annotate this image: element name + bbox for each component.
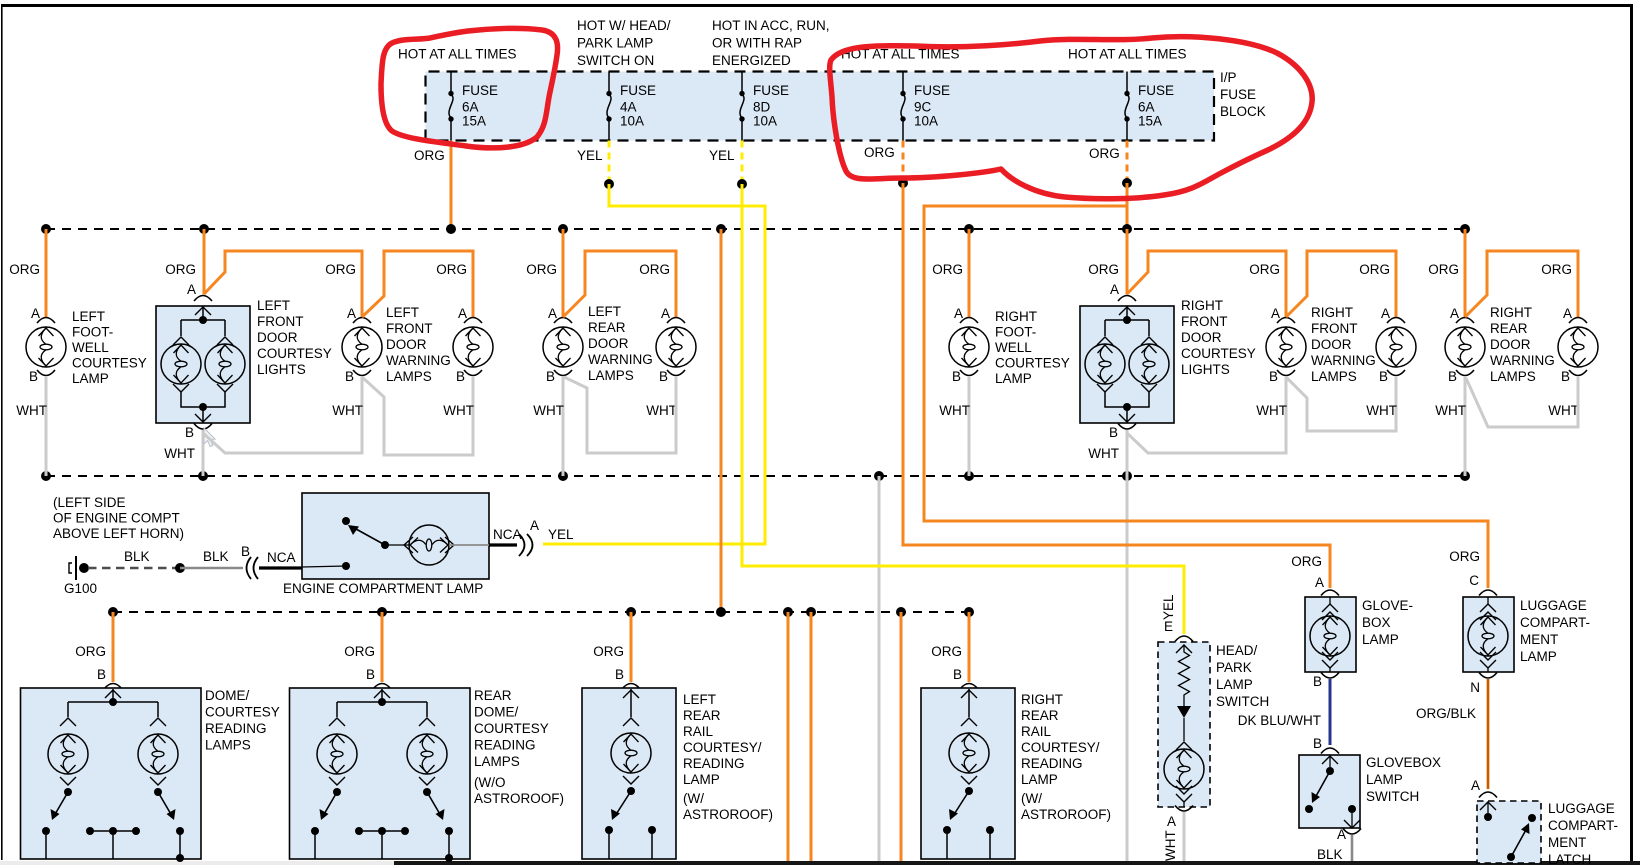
lamp: right rear door warning lamp 1: [1428, 229, 1555, 476]
svg-text:FUSE: FUSE: [1220, 87, 1256, 102]
svg-text:YEL: YEL: [548, 527, 574, 542]
lamp: right rear door warning lamp 2: [1541, 262, 1598, 418]
lamp: right front door warning lamp 1: [1249, 262, 1376, 384]
svg-text:FUSE: FUSE: [753, 83, 789, 98]
svg-text:I/P: I/P: [1220, 70, 1237, 85]
svg-text:ORG: ORG: [932, 262, 963, 277]
svg-text:BLK: BLK: [1317, 847, 1343, 862]
lamp: right foot-well courtesy lamp: [932, 229, 1070, 476]
wire ORG drop from lower bus to bottom: [900, 612, 903, 861]
svg-text:10A: 10A: [753, 114, 777, 129]
svg-text:DOOR: DOOR: [1490, 337, 1531, 352]
svg-text:REAR: REAR: [683, 708, 721, 723]
svg-text:LAMPS: LAMPS: [1311, 369, 1357, 384]
svg-text:WARNING: WARNING: [386, 353, 451, 368]
svg-text:N: N: [1470, 680, 1480, 695]
svg-text:COURTESY: COURTESY: [1181, 346, 1256, 361]
svg-text:LAMP: LAMP: [72, 371, 109, 386]
svg-text:YEL: YEL: [709, 148, 735, 163]
ground G100: [64, 556, 97, 596]
svg-text:HOT W/ HEAD/: HOT W/ HEAD/: [577, 18, 671, 33]
fuse F4 9C 10A: [900, 72, 950, 141]
svg-text:DOOR: DOOR: [1181, 330, 1222, 345]
svg-text:ORG: ORG: [325, 262, 356, 277]
svg-text:A: A: [1471, 778, 1480, 793]
svg-text:WHT: WHT: [1548, 403, 1579, 418]
lamp: left rear door warning lamp 2: [639, 262, 696, 418]
svg-text:B: B: [546, 369, 555, 384]
svg-text:RIGHT: RIGHT: [995, 309, 1037, 324]
wire WHT right rear lamp 2 B to lamp 1 B: [1466, 377, 1578, 427]
svg-text:A: A: [1563, 306, 1572, 321]
svg-text:WHT: WHT: [939, 403, 970, 418]
head/park lamp switch: [1158, 594, 1269, 829]
lamp assembly: rear dome/courtesy reading lamps: [290, 612, 565, 862]
svg-text:A: A: [1167, 814, 1176, 829]
svg-text:A: A: [548, 306, 557, 321]
svg-text:ORG/BLK: ORG/BLK: [1416, 706, 1476, 721]
svg-text:BLK: BLK: [124, 549, 150, 564]
wire engine lamp to connector A: [489, 543, 517, 546]
svg-text:REAR: REAR: [588, 320, 626, 335]
wire WHT right courtesy box B to right warning lamp 1 B: [1127, 377, 1286, 453]
svg-text:LAMP: LAMP: [1216, 677, 1253, 692]
svg-text:LAMPS: LAMPS: [205, 738, 251, 753]
svg-text:6A: 6A: [1138, 100, 1155, 115]
svg-text:(W/O: (W/O: [474, 775, 506, 790]
wire BLK connector to engine lamp box: [259, 566, 303, 569]
mouse cursor artifact: [204, 428, 215, 447]
svg-text:GLOVEBOX: GLOVEBOX: [1366, 755, 1441, 770]
wire ORG right warning lamp 1 to lamp 2: [1286, 251, 1396, 317]
svg-text:B: B: [1448, 369, 1457, 384]
svg-text:COURTESY: COURTESY: [995, 356, 1070, 371]
svg-text:B: B: [185, 425, 194, 440]
svg-text:B: B: [1269, 369, 1278, 384]
svg-text:LIGHTS: LIGHTS: [257, 362, 306, 377]
junction dots on lower bus: [108, 607, 974, 617]
svg-text:15A: 15A: [462, 114, 486, 129]
hand-drawn red loop around fuses 9C and 6A: [830, 37, 1312, 199]
svg-text:COURTESY/: COURTESY/: [683, 740, 762, 755]
svg-text:NCA: NCA: [267, 550, 296, 565]
svg-text:LEFT: LEFT: [257, 298, 290, 313]
svg-text:FOOT-: FOOT-: [995, 325, 1036, 340]
svg-text:WARNING: WARNING: [1311, 353, 1376, 368]
svg-text:YEL: YEL: [1161, 594, 1176, 620]
svg-text:SWITCH ON: SWITCH ON: [577, 53, 654, 68]
svg-text:LAMP: LAMP: [995, 371, 1032, 386]
inline connector B NCA: [241, 544, 296, 579]
svg-text:WHT: WHT: [533, 403, 564, 418]
svg-text:FUSE: FUSE: [1138, 83, 1174, 98]
svg-text:ORG: ORG: [931, 644, 962, 659]
svg-text:LAMP: LAMP: [1520, 649, 1557, 664]
svg-text:GLOVE-: GLOVE-: [1362, 598, 1413, 613]
svg-text:B: B: [952, 369, 961, 384]
svg-text:A: A: [661, 306, 670, 321]
fuse F2 4A 10A: [606, 72, 656, 141]
svg-text:B: B: [1109, 425, 1118, 440]
svg-text:FRONT: FRONT: [1181, 314, 1228, 329]
wire ORG rear lamp 1 to rear lamp 2: [563, 251, 676, 317]
svg-text:B: B: [659, 369, 668, 384]
wire YEL from fuse F3 (dashed): [709, 141, 742, 185]
svg-text:BOX: BOX: [1362, 615, 1391, 630]
lamp: left front door warning lamp 1: [325, 262, 451, 384]
lamp assembly: right rear rail courtesy/reading lamp: [921, 612, 1111, 859]
svg-text:B: B: [615, 667, 624, 682]
svg-text:ORG: ORG: [639, 262, 670, 277]
svg-text:B: B: [241, 544, 250, 559]
svg-text:WARNING: WARNING: [588, 352, 653, 367]
svg-text:ORG: ORG: [1428, 262, 1459, 277]
svg-text:DK BLU/WHT: DK BLU/WHT: [1238, 713, 1321, 728]
svg-text:COURTESY/: COURTESY/: [1021, 740, 1100, 755]
svg-text:G100: G100: [64, 581, 97, 596]
svg-text:HOT AT ALL TIMES: HOT AT ALL TIMES: [398, 47, 517, 62]
svg-text:A: A: [1381, 306, 1390, 321]
svg-text:B: B: [1561, 369, 1570, 384]
svg-text:ORG: ORG: [593, 644, 624, 659]
svg-text:A: A: [31, 306, 40, 321]
wire WHT right courtesy box B down through bus: [1126, 430, 1129, 861]
hand-drawn red circle around fuse F1: [381, 28, 558, 148]
wire WHT courtesy box B to middle bus: [202, 430, 205, 476]
svg-text:PARK LAMP: PARK LAMP: [577, 36, 653, 51]
svg-text:READING: READING: [205, 721, 267, 736]
svg-text:WHT: WHT: [332, 403, 363, 418]
wire WHT head/park switch A down: [1183, 812, 1186, 861]
svg-text:BLK: BLK: [203, 549, 229, 564]
svg-text:DOOR: DOOR: [1311, 337, 1352, 352]
svg-text:A: A: [187, 282, 196, 297]
wire YEL fuse F2 to engine compartment lamp: [543, 184, 765, 544]
svg-text:ORG: ORG: [1359, 262, 1390, 277]
svg-text:B: B: [953, 667, 962, 682]
node S202 yellow splice: [737, 179, 747, 189]
svg-text:A: A: [458, 306, 467, 321]
lamp: right front door warning lamp 2: [1359, 262, 1416, 384]
svg-text:DOME/: DOME/: [205, 688, 250, 703]
inline connector A NCA (engine lamp feed): [493, 518, 574, 556]
window bottom edge strip: [0, 861, 394, 865]
svg-text:ORG: ORG: [526, 262, 557, 277]
svg-text:ASTROROOF): ASTROROOF): [1021, 807, 1111, 822]
svg-text:LEFT: LEFT: [588, 304, 621, 319]
svg-text:NCA: NCA: [493, 527, 522, 542]
lamp: left foot-well courtesy lamp: [9, 229, 147, 476]
label HOT IN ACC, RUN, OR WITH RAP ENERGIZED: [712, 18, 830, 68]
svg-text:YEL: YEL: [577, 148, 603, 163]
svg-text:ASTROROOF): ASTROROOF): [683, 807, 773, 822]
node S204 orange splice: [1122, 178, 1132, 188]
svg-text:ORG: ORG: [1089, 146, 1120, 161]
svg-text:FRONT: FRONT: [257, 314, 304, 329]
svg-text:LAMP: LAMP: [1366, 772, 1403, 787]
svg-text:4A: 4A: [620, 100, 637, 115]
svg-text:COURTESY: COURTESY: [205, 705, 280, 720]
svg-text:DOOR: DOOR: [386, 337, 427, 352]
svg-text:A: A: [954, 306, 963, 321]
node S201 yellow splice: [604, 179, 614, 189]
svg-text:SWITCH: SWITCH: [1216, 694, 1269, 709]
lamp: left rear door warning lamp 1: [526, 229, 653, 476]
svg-text:LAMP: LAMP: [1362, 632, 1399, 647]
svg-text:(W/: (W/: [1021, 791, 1042, 806]
svg-text:MENT: MENT: [1520, 632, 1558, 647]
svg-text:LAMPS: LAMPS: [588, 368, 634, 383]
svg-text:WHT: WHT: [164, 446, 195, 461]
svg-text:FUSE: FUSE: [620, 83, 656, 98]
wire BLK glovebox switch A down: [1351, 835, 1354, 861]
svg-text:B: B: [1313, 736, 1322, 751]
svg-text:COURTESY: COURTESY: [257, 346, 332, 361]
svg-text:REAR: REAR: [1021, 708, 1059, 723]
svg-text:LATCH: LATCH: [1548, 852, 1591, 865]
node ground splice: [175, 563, 185, 573]
svg-text:B: B: [1379, 369, 1388, 384]
svg-text:PARK: PARK: [1216, 660, 1252, 675]
svg-text:WHT: WHT: [1366, 403, 1397, 418]
svg-text:REAR: REAR: [1490, 321, 1528, 336]
I/P fuse block: [426, 70, 1266, 141]
wire ORG branch fuse F5 to luggage compartment lamp C: [924, 206, 1488, 588]
svg-text:A: A: [1315, 575, 1324, 590]
wire ORG from fuse F5 (dashed): [1089, 141, 1127, 184]
svg-text:C: C: [1469, 573, 1479, 588]
junction dots on upper bus: [41, 224, 1470, 234]
node S203 orange splice: [898, 178, 908, 188]
svg-text:WELL: WELL: [995, 340, 1032, 355]
svg-text:RAIL: RAIL: [683, 724, 714, 739]
svg-text:LAMP: LAMP: [1021, 772, 1058, 787]
svg-text:RIGHT: RIGHT: [1021, 692, 1063, 707]
wire WHT right warning lamp 1 B to lamp 2 B: [1286, 377, 1396, 431]
frame top border: [1, 4, 1633, 7]
svg-text:LEFT: LEFT: [683, 692, 716, 707]
note (LEFT SIDE OF ENGINE COMPT ABOVE LEFT HORN): [53, 495, 184, 541]
svg-text:B: B: [456, 369, 465, 384]
svg-text:COURTESY: COURTESY: [72, 356, 147, 371]
svg-text:OF ENGINE COMPT: OF ENGINE COMPT: [53, 511, 180, 526]
wire ORG warning lamp 1 to warning lamp 2: [362, 251, 473, 317]
wire ORG from fuse F1 to bus: [414, 141, 451, 230]
svg-text:B: B: [29, 369, 38, 384]
svg-text:HEAD/: HEAD/: [1216, 643, 1258, 658]
svg-text:ENERGIZED: ENERGIZED: [712, 53, 791, 68]
svg-text:FOOT-: FOOT-: [72, 325, 113, 340]
svg-text:WHT: WHT: [1163, 830, 1178, 861]
wire ORG bus to lower bus: [720, 229, 723, 612]
svg-text:LUGGAGE: LUGGAGE: [1520, 598, 1587, 613]
svg-text:HOT AT ALL TIMES: HOT AT ALL TIMES: [1068, 47, 1187, 62]
svg-text:ORG: ORG: [436, 262, 467, 277]
wire WHT courtesy box B to warning lamp 1 B: [203, 377, 362, 453]
engine compartment lamp assembly: [283, 493, 489, 596]
svg-text:RAIL: RAIL: [1021, 724, 1052, 739]
svg-text:ORG: ORG: [1291, 554, 1322, 569]
svg-text:15A: 15A: [1138, 114, 1162, 129]
svg-text:DOOR: DOOR: [588, 336, 629, 351]
luggage compartment latch switch: [1471, 778, 1618, 865]
svg-text:SWITCH: SWITCH: [1366, 789, 1419, 804]
svg-text:ORG: ORG: [1249, 262, 1280, 277]
svg-text:LAMPS: LAMPS: [1490, 369, 1536, 384]
svg-text:ORG: ORG: [1088, 262, 1119, 277]
svg-text:8D: 8D: [753, 100, 771, 115]
svg-text:10A: 10A: [914, 114, 938, 129]
svg-text:ABOVE LEFT HORN): ABOVE LEFT HORN): [53, 526, 184, 541]
svg-text:WHT: WHT: [16, 403, 47, 418]
fuse F3 8D 10A: [739, 72, 789, 141]
svg-text:WARNING: WARNING: [1490, 353, 1555, 368]
svg-text:BLOCK: BLOCK: [1220, 104, 1266, 119]
fuse F1 6A 15A: [448, 72, 498, 141]
svg-text:6A: 6A: [462, 100, 479, 115]
svg-text:9C: 9C: [914, 100, 932, 115]
wire BLK dashed G100 to splice: [88, 567, 180, 569]
svg-text:READING: READING: [683, 756, 745, 771]
svg-text:LIGHTS: LIGHTS: [1181, 362, 1230, 377]
svg-text:READING: READING: [474, 738, 536, 753]
luggage compartment lamp: [1449, 549, 1590, 695]
lamp assembly: left front door courtesy lights: [156, 229, 332, 440]
wire ORG courtesy box A to left front warning lamp 1: [204, 251, 362, 317]
svg-text:HOT IN ACC, RUN,: HOT IN ACC, RUN,: [712, 18, 830, 33]
wire YEL from fuse F2 (dashed): [577, 141, 609, 185]
svg-text:WHT: WHT: [443, 403, 474, 418]
glove box lamp: [1291, 554, 1413, 689]
svg-text:10A: 10A: [620, 114, 644, 129]
svg-text:RIGHT: RIGHT: [1490, 305, 1532, 320]
label HOT W/ HEAD/ PARK LAMP SWITCH ON: [577, 18, 671, 68]
svg-text:READING: READING: [1021, 756, 1083, 771]
svg-text:LEFT: LEFT: [72, 309, 105, 324]
svg-text:DOME/: DOME/: [474, 705, 519, 720]
svg-text:B: B: [1313, 674, 1322, 689]
svg-text:A: A: [530, 518, 539, 533]
junction dots on middle bus: [41, 471, 1470, 481]
wire ORG drop to lower left area: [787, 612, 790, 861]
svg-text:WHT: WHT: [1256, 403, 1287, 418]
svg-text:FRONT: FRONT: [386, 321, 433, 336]
svg-text:ORG: ORG: [9, 262, 40, 277]
svg-text:OR WITH RAP: OR WITH RAP: [712, 36, 802, 51]
wire ORG right rear lamp 1 to lamp 2: [1465, 251, 1578, 317]
svg-text:A: A: [1271, 306, 1280, 321]
svg-text:B: B: [97, 667, 106, 682]
lamp assembly: right front door courtesy lights: [1080, 229, 1256, 440]
wire ORG from fuse F4 (dashed): [864, 141, 903, 184]
wire ORG/BLK luggage lamp N to latch: [1416, 679, 1488, 789]
svg-text:LEFT: LEFT: [386, 305, 419, 320]
wire crossing overpaints: [742, 221, 1137, 566]
wire YEL fuse F3 to head/park lamp switch E: [742, 184, 1184, 634]
svg-text:LAMP: LAMP: [683, 772, 720, 787]
svg-text:ORG: ORG: [414, 148, 445, 163]
svg-text:FRONT: FRONT: [1311, 321, 1358, 336]
svg-text:COURTESY: COURTESY: [474, 721, 549, 736]
svg-text:ASTROROOF): ASTROROOF): [474, 791, 564, 806]
svg-text:ORG: ORG: [1449, 549, 1480, 564]
wire DK BLU/WHT glove box lamp B to switch: [1329, 679, 1332, 745]
wire WHT rear lamp 2 B to lamp 1 B: [564, 377, 676, 453]
wire ORG fuse F4 to glove box lamp A: [903, 183, 1330, 588]
svg-text:ENGINE COMPARTMENT LAMP: ENGINE COMPARTMENT LAMP: [283, 581, 483, 596]
svg-text:WHT: WHT: [1435, 403, 1466, 418]
svg-text:REAR: REAR: [474, 688, 512, 703]
lamp assembly: left rear rail courtesy/reading lamp: [582, 612, 773, 859]
svg-text:B: B: [345, 369, 354, 384]
svg-text:COMPART-: COMPART-: [1520, 615, 1590, 630]
lamp: left front door warning lamp 2: [436, 262, 493, 384]
svg-text:MENT: MENT: [1548, 835, 1586, 850]
svg-text:ORG: ORG: [165, 262, 196, 277]
svg-text:ORG: ORG: [864, 145, 895, 160]
wire WHT ground drop from middle bus: [878, 476, 881, 861]
bus: lower orange distribution bus (dashed): [113, 611, 969, 613]
svg-text:ORG: ORG: [1541, 262, 1572, 277]
bus: middle white return bus (dashed): [46, 475, 1465, 477]
svg-text:WELL: WELL: [72, 340, 109, 355]
svg-text:COMPART-: COMPART-: [1548, 818, 1618, 833]
glovebox lamp switch: [1299, 736, 1441, 842]
svg-text:(W/: (W/: [683, 791, 704, 806]
svg-text:LAMPS: LAMPS: [474, 754, 520, 769]
svg-text:LAMPS: LAMPS: [386, 369, 432, 384]
svg-text:FUSE: FUSE: [914, 83, 950, 98]
svg-text:B: B: [366, 667, 375, 682]
svg-text:WHT: WHT: [646, 403, 677, 418]
svg-text:LUGGAGE: LUGGAGE: [1548, 801, 1615, 816]
svg-text:RIGHT: RIGHT: [1181, 298, 1223, 313]
svg-text:DOOR: DOOR: [257, 330, 298, 345]
wire BLK splice to connector B: [180, 567, 243, 569]
svg-text:WHT: WHT: [1088, 446, 1119, 461]
svg-text:A: A: [1110, 282, 1119, 297]
wire ORG drop to lower right area: [810, 612, 813, 861]
wire WHT warning lamp 1 B to lamp 2 B: [362, 377, 473, 455]
bus: upper orange distribution bus (dashed): [46, 228, 1465, 230]
svg-text:A: A: [347, 306, 356, 321]
wire ORG right courtesy box A to right front warning lamp 1: [1127, 251, 1286, 317]
wire ORG fuse F5 down to bus: [1126, 183, 1129, 229]
svg-text:RIGHT: RIGHT: [1311, 305, 1353, 320]
svg-text:ORG: ORG: [75, 644, 106, 659]
svg-text:A: A: [1450, 306, 1459, 321]
svg-text:(LEFT SIDE: (LEFT SIDE: [53, 495, 126, 510]
svg-text:E: E: [1164, 619, 1173, 634]
fuse F5 6A 15A: [1124, 72, 1174, 141]
lamp assembly: dome/courtesy reading lamps: [21, 612, 280, 862]
svg-text:FUSE: FUSE: [462, 83, 498, 98]
svg-text:ORG: ORG: [344, 644, 375, 659]
